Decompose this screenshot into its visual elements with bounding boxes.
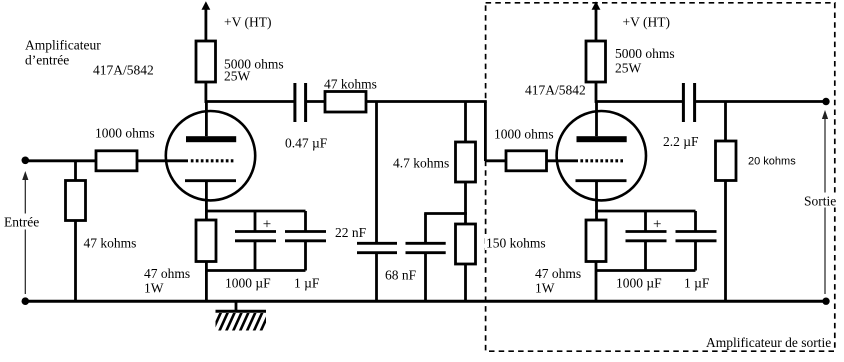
wire: cap to 47 kohms series resistor bbox=[306, 100, 325, 103]
label: 5000 ohms 25W (stage 1) bbox=[224, 57, 284, 84]
wire: input node to grid network (top) bbox=[25, 159, 96, 162]
arrow: Sortie output arrow bbox=[803, 110, 837, 294]
svg-text:1 µF: 1 µF bbox=[684, 276, 710, 291]
wire: bottom ground rail bbox=[25, 300, 826, 303]
svg-text:417A/5842: 417A/5842 bbox=[93, 63, 154, 78]
svg-text:150 kohms: 150 kohms bbox=[486, 236, 546, 251]
dashed box: Amplificateur de sortie bbox=[486, 3, 835, 351]
wire: corner to 1000 ohms grid resistor 2 bbox=[485, 159, 506, 162]
svg-text:1W: 1W bbox=[535, 281, 555, 296]
svg-text:0.47 µF: 0.47 µF bbox=[285, 136, 328, 151]
resistor R 20 kohms (output load, vertical) bbox=[716, 102, 737, 303]
svg-text:47 kohms: 47 kohms bbox=[324, 77, 377, 92]
label: Amplificateur d'entree bbox=[25, 38, 101, 68]
svg-text:68 nF: 68 nF bbox=[385, 267, 417, 282]
svg-text:Sortie: Sortie bbox=[804, 194, 836, 209]
capacitor C 0.47 uF (coupling) bbox=[295, 83, 306, 122]
node: input top terminal dot bbox=[22, 157, 30, 165]
svg-text:417A/5842: 417A/5842 bbox=[525, 82, 586, 97]
node: output top terminal dot bbox=[822, 98, 829, 105]
svg-text:1000 µF: 1000 µF bbox=[225, 276, 271, 291]
svg-text:1000 ohms: 1000 ohms bbox=[494, 127, 554, 142]
svg-text:Entrée: Entrée bbox=[4, 215, 39, 230]
svg-text:d’entrée: d’entrée bbox=[25, 53, 69, 68]
arrow: Entree input arrow bbox=[3, 171, 42, 294]
svg-text:47 kohms: 47 kohms bbox=[84, 235, 137, 250]
resistor R 5000 ohms 25W (plate load 2, vertical) bbox=[586, 41, 606, 82]
node: input bottom terminal dot bbox=[22, 297, 30, 305]
wire: bypass bracket bottom (stage 2) bbox=[595, 269, 696, 272]
svg-text:25W: 25W bbox=[224, 69, 251, 84]
svg-text:5000 ohms: 5000 ohms bbox=[615, 46, 675, 61]
resistor R 1000 ohms (grid stopper 2, horizontal) bbox=[506, 151, 547, 171]
wire: 47k series resistor to corner node x485 bbox=[366, 100, 487, 103]
svg-text:1 µF: 1 µF bbox=[294, 276, 320, 291]
label: 150 kohms bbox=[485, 235, 548, 251]
resistor R 5000 ohms 25W (plate load 1, vertical) bbox=[196, 41, 216, 82]
capacitor C 1000 uF (cathode bypass 1, electrolytic) bbox=[235, 211, 276, 271]
resistor R 47 kohms (series, horizontal) bbox=[325, 92, 366, 113]
svg-text:+: + bbox=[263, 216, 271, 232]
svg-text:2.2 µF: 2.2 µF bbox=[663, 134, 699, 149]
wire: plate node 1 to coupling cap bbox=[205, 100, 296, 103]
wire: cathode lead V2 bbox=[595, 181, 598, 220]
wire: 1000 ohms to tube 1 grid bbox=[137, 159, 188, 162]
wire: stub to 47k grid resistor bbox=[74, 161, 77, 181]
svg-text:+V (HT): +V (HT) bbox=[224, 15, 271, 30]
capacitor C 1 uF (cathode bypass 1) bbox=[285, 211, 326, 271]
power: +V (HT) arrow stage 1 bbox=[202, 1, 211, 41]
node: output bottom terminal dot bbox=[822, 298, 829, 305]
svg-text:4.7 kohms: 4.7 kohms bbox=[393, 156, 449, 171]
resistor R 47 ohms 1W (cathode 2, vertical) bbox=[586, 220, 606, 262]
label: 5000 ohms 25W (stage 2) bbox=[615, 46, 675, 75]
svg-text:25W: 25W bbox=[615, 60, 642, 75]
wire: bypass bracket top (stage 1) bbox=[205, 210, 306, 213]
tube V1 grid (dotted) bbox=[191, 159, 234, 162]
resistor R 1000 ohms (grid stopper 1, horizontal) bbox=[96, 151, 137, 171]
wire: output cap to output dot bbox=[695, 100, 826, 103]
wire: 47k resistor to ground rail bbox=[74, 221, 77, 303]
capacitor C 1 uF (cathode bypass 2) bbox=[676, 211, 717, 271]
wire: cathode lead V1 bbox=[205, 181, 208, 220]
wire: cathode resistor 1 to rail bbox=[205, 262, 208, 303]
wire: corner node down to grid 2 level bbox=[484, 102, 487, 162]
wire: cathode resistor 2 to rail bbox=[595, 262, 598, 303]
wire: bypass bracket top (stage 2) bbox=[595, 210, 696, 213]
wire: plate resistor 2 to plate node bbox=[595, 82, 598, 103]
wire: plate lead V1 bbox=[205, 102, 208, 137]
tube V2 cathode bar bbox=[576, 179, 627, 182]
wire: plate lead V2 bbox=[595, 102, 598, 137]
tube V1 417A/5842: envelope circle bbox=[166, 111, 255, 200]
svg-text:22 nF: 22 nF bbox=[335, 225, 367, 240]
wire: plate node 2 to output cap bbox=[595, 100, 684, 103]
tube V1 cathode bar bbox=[185, 179, 236, 182]
wire: plate resistor 1 to plate node bbox=[204, 82, 207, 103]
svg-text:1000 µF: 1000 µF bbox=[616, 276, 662, 291]
svg-text:+V (HT): +V (HT) bbox=[623, 15, 670, 30]
svg-text:+: + bbox=[653, 216, 661, 232]
svg-text:20 kohms: 20 kohms bbox=[748, 156, 796, 168]
label: 47 ohms 1W (stage 2) bbox=[535, 266, 581, 296]
wire: 1000 ohms to tube 2 grid bbox=[547, 159, 579, 162]
wire: bypass bracket bottom (stage 1) bbox=[205, 269, 306, 272]
tube V2 417A/5842: envelope circle bbox=[557, 111, 646, 200]
ground symbol bbox=[205, 301, 277, 332]
svg-text:Amplificateur de sortie: Amplificateur de sortie bbox=[706, 335, 831, 350]
capacitor C 1000 uF (cathode bypass 2, electrolytic) bbox=[626, 211, 667, 271]
resistor R 4.7 kohms (vertical) bbox=[456, 102, 476, 183]
resistor R 150 kohms (vertical) bbox=[456, 224, 476, 302]
svg-text:47 ohms: 47 ohms bbox=[144, 266, 190, 281]
svg-text:1000 ohms: 1000 ohms bbox=[95, 126, 155, 141]
tube V2 grid (dotted) bbox=[580, 159, 623, 162]
capacitor C 68 nF bbox=[406, 214, 467, 303]
power: +V (HT) arrow stage 2 bbox=[592, 1, 601, 41]
resistor R 47 kohms (input, vertical) bbox=[66, 181, 86, 221]
capacitor C 2.2 uF (output coupling) bbox=[683, 83, 694, 122]
tube V1 plate bar bbox=[186, 136, 236, 142]
resistor R 47 ohms 1W (cathode 1, vertical) bbox=[196, 220, 216, 262]
svg-text:1W: 1W bbox=[144, 281, 164, 296]
wire: 4.7k to 150k junction bbox=[464, 182, 467, 224]
svg-text:47 ohms: 47 ohms bbox=[535, 266, 581, 281]
svg-text:Amplificateur: Amplificateur bbox=[25, 38, 101, 53]
label: 47 ohms 1W (stage 1) bbox=[144, 266, 190, 296]
tube V2 plate bar bbox=[577, 136, 627, 142]
capacitor C 22 nF bbox=[357, 102, 397, 303]
